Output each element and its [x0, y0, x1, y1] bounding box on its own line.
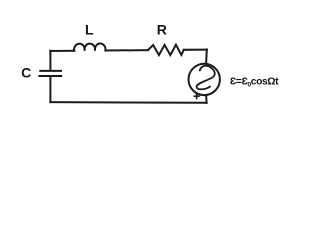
wire left vertical upper	[49, 51, 51, 71]
ac source U1 circle	[189, 64, 220, 95]
svg-text:R: R	[157, 22, 167, 38]
wire right vertical lower (source to bottom corner)	[205, 95, 208, 103]
wire right vertical upper (corner to source)	[205, 49, 208, 63]
inductor L	[74, 43, 105, 50]
svg-text:L: L	[85, 22, 94, 38]
svg-text:C: C	[21, 65, 31, 81]
capacitor C bottom plate	[39, 75, 61, 77]
capacitor C top plate	[40, 70, 61, 72]
plus polarity sign	[194, 93, 200, 99]
svg-text:Ɛ=Ɛ0cosΩt: Ɛ=Ɛ0cosΩt	[230, 76, 279, 88]
resistor R	[148, 45, 184, 56]
ac source sine symbol	[197, 66, 215, 90]
wire top-left segment	[50, 50, 74, 52]
wire left vertical lower	[49, 77, 51, 103]
wire top-right segment	[184, 49, 207, 51]
wire bottom	[50, 101, 206, 104]
wire top-middle segment	[105, 49, 148, 51]
